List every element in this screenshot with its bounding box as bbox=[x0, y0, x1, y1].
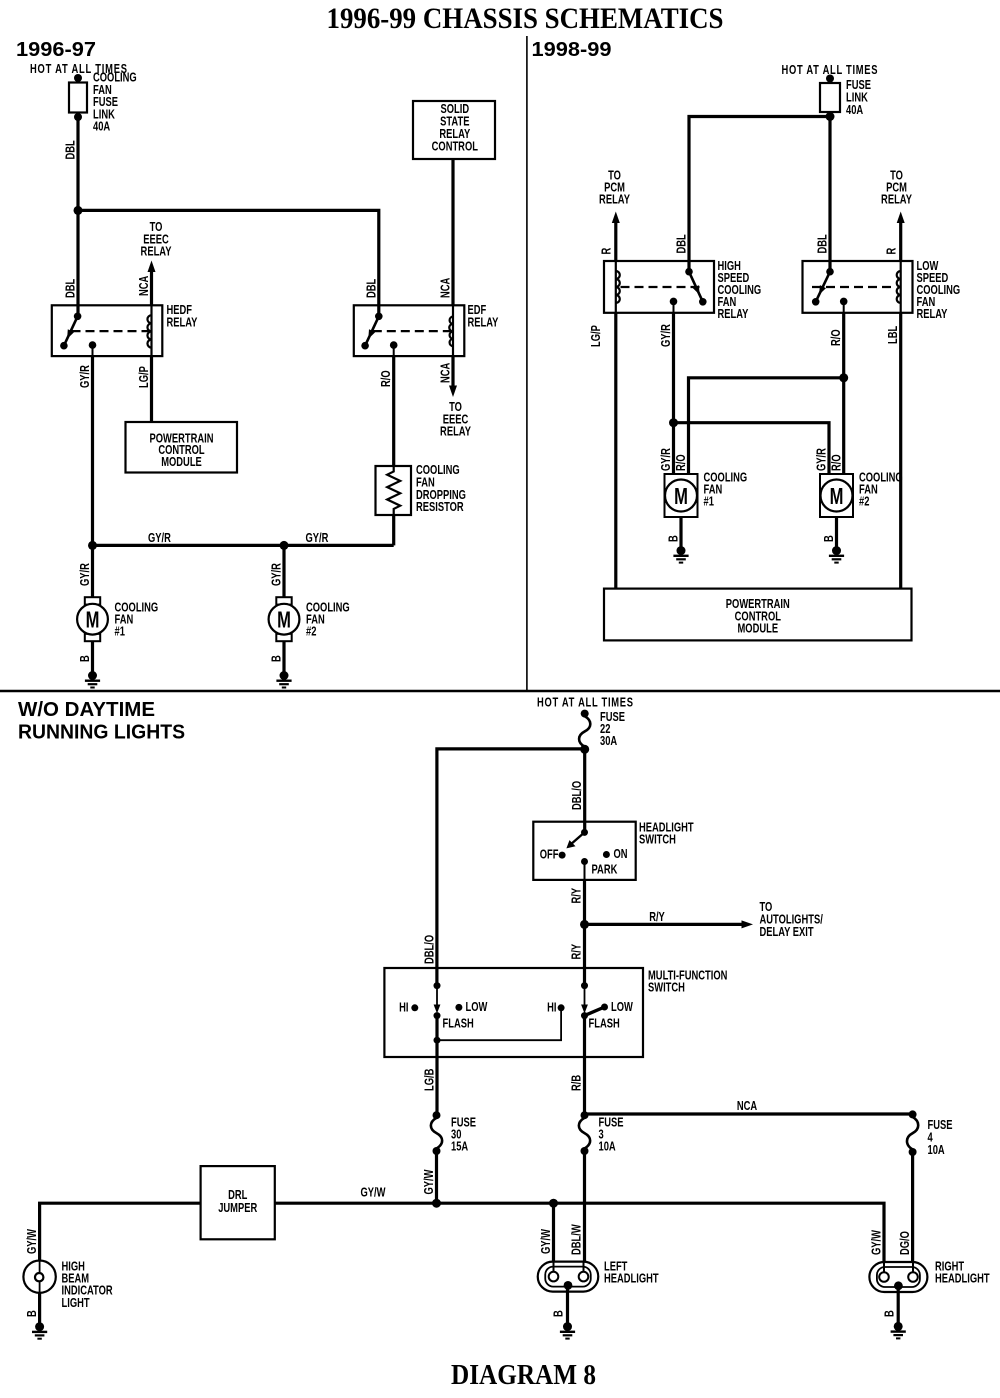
switch multi-function left pole bbox=[434, 982, 441, 1057]
svg-text:RELAY: RELAY bbox=[167, 316, 198, 330]
relay low speed contacts and arm bbox=[812, 268, 848, 306]
fuse link 40A (1998-99) bbox=[820, 75, 840, 121]
relay low speed coil bbox=[897, 261, 901, 313]
value label FUSE 3 10A bbox=[599, 1116, 624, 1154]
label LBL below low speed relay bbox=[887, 326, 901, 344]
relay low speed dashed link bbox=[812, 286, 896, 288]
label DG/O bbox=[899, 1231, 913, 1255]
svg-text:R: R bbox=[885, 247, 899, 254]
wire GY/R from HEDF bbox=[92, 345, 94, 545]
wire R to PCM relay with arrow (right) bbox=[897, 212, 905, 262]
fuse 30 15A bbox=[431, 1111, 442, 1155]
wire LBL to PCM (1998-99) bbox=[899, 313, 902, 589]
svg-text:GY/R: GY/R bbox=[815, 448, 829, 471]
wire R/Y headlight switch to junction bbox=[584, 862, 586, 925]
fuse 4 10A bbox=[907, 1110, 918, 1156]
svg-text:R/O: R/O bbox=[380, 370, 394, 387]
wire R/O crossover to fan1 bbox=[689, 378, 844, 474]
label TO AUTOLIGHTS/DELAY EXIT bbox=[760, 901, 824, 940]
wire B fan1 to ground (98-99) bbox=[679, 517, 682, 551]
caption DIAGRAM 8 bbox=[451, 1359, 596, 1391]
wire NCA to EEEC relay with arrow bbox=[148, 261, 156, 306]
svg-text:DBL: DBL bbox=[365, 279, 379, 298]
label DBL above high speed relay bbox=[675, 234, 689, 253]
label R/O above fan2 (98-99) bbox=[830, 454, 844, 471]
module DRL JUMPER bbox=[201, 1166, 275, 1239]
label GY/R above fan1 bbox=[79, 563, 93, 586]
label PARK bbox=[592, 863, 618, 877]
section divider vertical bbox=[526, 36, 528, 691]
wire GY/R high speed relay to fan1 bbox=[673, 301, 675, 474]
node LOW left bbox=[455, 1004, 462, 1011]
svg-text:B: B bbox=[667, 535, 681, 542]
label GY/R below high speed relay bbox=[660, 324, 674, 347]
svg-text:DBL/O: DBL/O bbox=[571, 781, 585, 810]
label DBL/W bbox=[570, 1224, 584, 1255]
svg-text:HEADLIGHT: HEADLIGHT bbox=[604, 1272, 659, 1286]
svg-text:30A: 30A bbox=[600, 735, 617, 749]
svg-text:15A: 15A bbox=[451, 1140, 468, 1154]
svg-text:M: M bbox=[277, 608, 291, 633]
svg-text:#2: #2 bbox=[859, 495, 869, 509]
label RIGHT HEADLIGHT bbox=[935, 1260, 990, 1286]
label B fan1 (98-99) bbox=[667, 535, 681, 542]
wire DG/O fuse 4 to right headlight bbox=[911, 1152, 914, 1268]
svg-text:W/O DAYTIME: W/O DAYTIME bbox=[18, 699, 155, 721]
wire B left headlight to ground bbox=[566, 1285, 569, 1326]
svg-text:LG/B: LG/B bbox=[423, 1069, 437, 1091]
label TO PCM RELAY (right) bbox=[881, 169, 912, 207]
motor cooling fan #1 (1996-97) bbox=[77, 597, 108, 641]
junction node GY/R fan2 bbox=[280, 541, 289, 550]
svg-text:NCA: NCA bbox=[439, 363, 453, 383]
node HI right bbox=[558, 1004, 565, 1011]
resistor cooling fan dropping resistor bbox=[376, 466, 412, 515]
label OFF bbox=[540, 848, 559, 862]
switch headlight box bbox=[533, 822, 635, 880]
label GY/R above fan2 (98-99) bbox=[815, 448, 829, 471]
wire GY/W to left headlight bbox=[552, 1203, 555, 1268]
svg-text:RELAY: RELAY bbox=[881, 193, 912, 207]
label HOT AT ALL TIMES (bottom) bbox=[537, 696, 633, 710]
switch arm to LOW right bbox=[585, 1004, 609, 1016]
label FLASH right bbox=[589, 1017, 620, 1031]
label COOLING FAN #1 bbox=[115, 601, 159, 639]
svg-text:R/O: R/O bbox=[830, 329, 844, 346]
bulb left headlight bbox=[538, 1262, 599, 1292]
wire DBL fuse to high speed relay bbox=[689, 117, 830, 272]
label HIGH SPEED COOLING FAN RELAY bbox=[718, 260, 762, 322]
svg-text:RELAY: RELAY bbox=[917, 308, 948, 322]
svg-text:R/B: R/B bbox=[570, 1075, 584, 1091]
svg-text:RELAY: RELAY bbox=[141, 245, 172, 259]
switch headlight contacts bbox=[559, 829, 610, 865]
module SOLID STATE RELAY CONTROL bbox=[413, 101, 495, 159]
svg-text:M: M bbox=[674, 484, 688, 509]
label R/O below low speed relay bbox=[830, 329, 844, 346]
wire DBL/O to headlight switch bbox=[583, 749, 586, 832]
wire flash link bbox=[434, 1011, 562, 1044]
junction node GY/W left headlight bbox=[549, 1199, 558, 1208]
svg-text:LIGHT: LIGHT bbox=[62, 1296, 90, 1310]
wire GY/R to cooling fan 1 bbox=[91, 545, 94, 596]
svg-text:#1: #1 bbox=[704, 495, 715, 509]
svg-text:LBL: LBL bbox=[887, 326, 901, 344]
svg-text:RELAY: RELAY bbox=[599, 193, 630, 207]
bulb right headlight bbox=[869, 1262, 927, 1292]
wire GY/R crossover to fan2 bbox=[674, 423, 830, 474]
motor cooling fan #2 (1996-97) bbox=[269, 597, 300, 641]
label HI right bbox=[547, 1001, 556, 1015]
label R (right) bbox=[885, 247, 899, 254]
label B fan1 bbox=[79, 655, 93, 662]
svg-text:PARK: PARK bbox=[592, 863, 618, 877]
wire DBL/W fuse 3 to left headlight bbox=[583, 1151, 586, 1268]
svg-text:10A: 10A bbox=[928, 1144, 945, 1158]
svg-text:GY/R: GY/R bbox=[148, 531, 171, 545]
svg-text:GY/W: GY/W bbox=[540, 1229, 554, 1254]
svg-text:DELAY EXIT: DELAY EXIT bbox=[760, 926, 814, 940]
wire GY/R to cooling fan 2 bbox=[282, 545, 285, 596]
wire GY/R bus bbox=[93, 544, 394, 547]
svg-text:R: R bbox=[600, 247, 614, 254]
module POWERTRAIN CONTROL MODULE (1996-97) bbox=[126, 422, 238, 473]
svg-text:DBL/W: DBL/W bbox=[570, 1224, 584, 1255]
svg-text:LOW: LOW bbox=[466, 1001, 488, 1015]
svg-text:GY/W: GY/W bbox=[361, 1186, 386, 1200]
wire B right headlight to ground bbox=[897, 1286, 900, 1327]
svg-text:GY/R: GY/R bbox=[660, 324, 674, 347]
svg-text:10A: 10A bbox=[599, 1140, 616, 1154]
relay EDF contacts and arm bbox=[361, 313, 397, 350]
label LG/B bbox=[423, 1069, 437, 1091]
label TO EEEC RELAY (below EDF) bbox=[440, 401, 471, 439]
label COOLING FAN #1 (98-99) bbox=[704, 471, 748, 509]
relay EDF coil bbox=[449, 305, 453, 356]
label MULTI-FUNCTION SWITCH bbox=[648, 969, 727, 995]
svg-text:1998-99: 1998-99 bbox=[532, 39, 612, 61]
wire B fan2 to ground bbox=[282, 642, 285, 676]
label HIGH BEAM INDICATOR LIGHT bbox=[62, 1260, 114, 1310]
motor cooling fan #2 (1998-99) bbox=[820, 474, 853, 517]
label R/O below EDF bbox=[380, 370, 394, 387]
label R (left) bbox=[600, 247, 614, 254]
label DBL above low speed relay bbox=[816, 234, 830, 253]
label R/Y below junction bbox=[570, 944, 584, 960]
fuse cooling fan fuse link 40A bbox=[69, 74, 87, 121]
label LOW left bbox=[466, 1001, 488, 1015]
label HOT AT ALL TIMES (1998-99) bbox=[782, 64, 878, 78]
wire DBL fuse to low speed relay bbox=[828, 117, 831, 272]
label B fan2 (98-99) bbox=[823, 535, 837, 542]
switch multi-function box bbox=[384, 968, 643, 1057]
label GY/W indicator bbox=[26, 1229, 40, 1254]
svg-text:#1: #1 bbox=[115, 625, 126, 639]
svg-text:GY/R: GY/R bbox=[660, 448, 674, 471]
label LOW right bbox=[611, 1001, 633, 1015]
label GY/R on bus right bbox=[306, 531, 329, 545]
wire DBL/O branch left bbox=[437, 749, 585, 986]
wire B indicator to ground bbox=[38, 1293, 41, 1327]
svg-text:HOT AT ALL TIMES: HOT AT ALL TIMES bbox=[537, 696, 633, 710]
section header 1996-97 bbox=[16, 39, 96, 61]
label COOLING FAN #2 (98-99) bbox=[859, 471, 903, 509]
svg-text:GY/W: GY/W bbox=[870, 1230, 884, 1255]
ground indicator bbox=[32, 1322, 47, 1339]
svg-text:B: B bbox=[79, 655, 93, 662]
wire LG/B to fuse 30 bbox=[435, 1057, 438, 1115]
label GY/W below fuse 30 bbox=[423, 1169, 437, 1194]
junction node R/O bbox=[839, 373, 848, 382]
label B indicator bbox=[26, 1310, 40, 1317]
svg-text:RELAY: RELAY bbox=[718, 308, 749, 322]
fuse 3 10A bbox=[579, 1111, 590, 1155]
wire B fan2 to ground (98-99) bbox=[835, 517, 838, 551]
relay high speed cooling fan box bbox=[604, 261, 714, 313]
svg-text:R/Y: R/Y bbox=[570, 888, 584, 904]
label B right headlight bbox=[883, 1310, 897, 1317]
junction node at fuse link bbox=[826, 112, 835, 121]
section divider horizontal bbox=[0, 690, 1000, 693]
node HI left bbox=[411, 1004, 418, 1011]
switch multi-function right pole bbox=[581, 982, 588, 1057]
svg-text:RESISTOR: RESISTOR bbox=[416, 501, 464, 515]
relay high speed coil bbox=[616, 261, 620, 313]
label GY/R below HEDF bbox=[79, 365, 93, 388]
svg-text:LG/P: LG/P bbox=[590, 325, 604, 347]
svg-text:NCA: NCA bbox=[737, 1100, 757, 1114]
svg-text:40A: 40A bbox=[846, 103, 863, 117]
svg-text:B: B bbox=[823, 535, 837, 542]
svg-text:MODULE: MODULE bbox=[161, 456, 202, 470]
value label FUSE 30 15A bbox=[451, 1116, 476, 1154]
wire GY/W fuse 30 to bus bbox=[435, 1151, 438, 1203]
svg-text:RELAY: RELAY bbox=[468, 316, 499, 330]
svg-text:NCA: NCA bbox=[138, 276, 152, 296]
svg-text:#2: #2 bbox=[306, 625, 316, 639]
wire LG/P to PCM (1998-99) bbox=[614, 313, 617, 589]
label GY/R above fan1 (98-99) bbox=[660, 448, 674, 471]
svg-text:R/Y: R/Y bbox=[649, 911, 665, 925]
wire R/O from EDF to dropping resistor bbox=[393, 345, 395, 466]
module POWERTRAIN CONTROL MODULE (1998-99) bbox=[604, 589, 912, 641]
junction node GY/W fuse30 bbox=[432, 1199, 441, 1208]
svg-text:HEADLIGHT: HEADLIGHT bbox=[935, 1272, 990, 1286]
label FLASH left bbox=[443, 1017, 474, 1031]
wire R/O resistor to GY/R bus bbox=[392, 515, 395, 545]
label B fan2 bbox=[270, 655, 284, 662]
svg-text:40A: 40A bbox=[93, 120, 110, 134]
svg-text:M: M bbox=[830, 484, 844, 509]
label GY/W left headlight bbox=[540, 1229, 554, 1254]
label TO PCM RELAY (left) bbox=[599, 169, 630, 207]
svg-text:LOW: LOW bbox=[611, 1001, 633, 1015]
svg-text:CONTROL: CONTROL bbox=[432, 140, 478, 154]
title 1996-99 CHASSIS SCHEMATICS bbox=[327, 2, 724, 35]
wire R/Y to autolights with arrow bbox=[585, 920, 754, 928]
svg-text:GY/W: GY/W bbox=[26, 1229, 40, 1254]
svg-text:SWITCH: SWITCH bbox=[639, 833, 676, 847]
label NCA above HEDF bbox=[138, 276, 152, 296]
ground fan2 (98-99) bbox=[829, 546, 844, 563]
svg-text:DBL: DBL bbox=[816, 234, 830, 253]
svg-text:DBL: DBL bbox=[675, 234, 689, 253]
ground right headlight bbox=[891, 1322, 906, 1339]
label DBL bbox=[64, 140, 78, 159]
value label FUSE 4 10A bbox=[928, 1119, 953, 1158]
svg-text:OFF: OFF bbox=[540, 848, 559, 862]
label LOW SPEED COOLING FAN RELAY bbox=[917, 260, 961, 322]
wire DBL from fuse to HEDF relay bbox=[76, 117, 79, 316]
relay EDF box bbox=[354, 305, 465, 356]
svg-text:ON: ON bbox=[614, 848, 628, 862]
label HI left bbox=[399, 1001, 408, 1015]
wire NCA to fuse 4 bbox=[585, 1112, 913, 1115]
label TO EEEC RELAY (left) bbox=[141, 221, 172, 259]
label R/B bbox=[570, 1075, 584, 1091]
svg-text:RUNNING LIGHTS: RUNNING LIGHTS bbox=[18, 722, 185, 744]
junction node DBL bbox=[74, 206, 83, 215]
label GY/W on bus bbox=[361, 1186, 386, 1200]
svg-text:1996-97: 1996-97 bbox=[16, 39, 96, 61]
label LG/P bbox=[138, 366, 152, 388]
junction node R/Y bbox=[580, 920, 589, 929]
svg-text:DRL: DRL bbox=[228, 1189, 247, 1203]
svg-text:JUMPER: JUMPER bbox=[218, 1202, 258, 1216]
svg-text:B: B bbox=[26, 1310, 40, 1317]
relay high speed contacts and arm bbox=[670, 268, 707, 306]
label HEADLIGHT SWITCH bbox=[639, 821, 694, 847]
wire R to PCM relay with arrow (left) bbox=[612, 212, 620, 262]
label COOLING FAN #2 bbox=[306, 601, 350, 639]
svg-text:B: B bbox=[552, 1310, 566, 1317]
label GY/W right headlight bbox=[870, 1230, 884, 1255]
ground fan2 bbox=[276, 671, 291, 688]
svg-text:FLASH: FLASH bbox=[443, 1017, 474, 1031]
label HOT AT ALL TIMES (1996-97) bbox=[30, 63, 127, 77]
svg-text:HI: HI bbox=[547, 1001, 556, 1015]
section header W/O DAYTIME RUNNING LIGHTS bbox=[18, 699, 185, 744]
fuse 22 30A bbox=[579, 710, 590, 754]
label B left headlight bbox=[552, 1310, 566, 1317]
wire R/B to fuse 3 bbox=[583, 1057, 586, 1115]
label R/Y above junction bbox=[570, 888, 584, 904]
svg-text:RELAY: RELAY bbox=[440, 425, 471, 439]
svg-text:LG/P: LG/P bbox=[138, 366, 152, 388]
value label COOLING FAN FUSE LINK 40A bbox=[93, 71, 137, 134]
label R/O above fan1 (98-99) bbox=[675, 454, 689, 471]
label DBL/O bbox=[571, 781, 585, 810]
ground left headlight bbox=[560, 1322, 575, 1339]
svg-text:GY/R: GY/R bbox=[306, 531, 329, 545]
relay HEDF contacts and arm bbox=[60, 313, 96, 350]
label LG/P below high speed relay bbox=[590, 325, 604, 347]
value label FUSE LINK 40A bbox=[846, 79, 871, 118]
relay HEDF coil bbox=[147, 305, 151, 356]
svg-text:DBL: DBL bbox=[64, 140, 78, 159]
junction node GY/R fan1 bbox=[88, 541, 97, 550]
wire R/O low speed relay to fan2 bbox=[843, 301, 845, 474]
relay high speed dashed link bbox=[621, 286, 701, 288]
svg-text:MODULE: MODULE bbox=[738, 622, 779, 636]
wire B fan1 to ground bbox=[91, 642, 94, 676]
svg-text:FLASH: FLASH bbox=[589, 1017, 620, 1031]
label LEFT HEADLIGHT bbox=[604, 1260, 659, 1286]
ground fan1 bbox=[85, 671, 100, 688]
section header 1998-99 bbox=[532, 39, 612, 61]
svg-text:DBL: DBL bbox=[64, 279, 78, 298]
svg-text:SWITCH: SWITCH bbox=[648, 981, 685, 995]
svg-text:GY/R: GY/R bbox=[270, 563, 284, 586]
svg-text:DIAGRAM 8: DIAGRAM 8 bbox=[451, 1359, 596, 1391]
label NCA below EDF bbox=[439, 363, 453, 383]
label ON bbox=[614, 848, 628, 862]
relay HEDF box bbox=[52, 305, 163, 356]
svg-text:B: B bbox=[883, 1310, 897, 1317]
svg-text:GY/W: GY/W bbox=[423, 1169, 437, 1194]
label HEDF RELAY bbox=[167, 304, 198, 330]
wire NCA from solid state relay control bbox=[451, 159, 454, 305]
value label FUSE 22 30A bbox=[600, 711, 625, 749]
label GY/R on bus left bbox=[148, 531, 171, 545]
label DBL above HEDF bbox=[64, 279, 78, 298]
svg-text:NCA: NCA bbox=[439, 278, 453, 298]
label NCA above EDF bbox=[439, 278, 453, 298]
label COOLING FAN DROPPING RESISTOR bbox=[416, 464, 466, 515]
svg-text:R/O: R/O bbox=[675, 454, 689, 471]
junction node below fuse 22 bbox=[580, 745, 589, 754]
svg-text:M: M bbox=[86, 608, 100, 633]
wire GY/W main bus bbox=[40, 1203, 884, 1268]
svg-text:HI: HI bbox=[399, 1001, 408, 1015]
svg-text:R/O: R/O bbox=[830, 454, 844, 471]
label EDF RELAY bbox=[468, 304, 499, 330]
wire DBL branch to EDF relay bbox=[78, 210, 379, 316]
label DBL/O on left branch bbox=[423, 935, 437, 964]
ground fan1 (98-99) bbox=[673, 546, 688, 563]
wire NCA below EDF with arrow to EEEC relay bbox=[449, 356, 457, 397]
svg-text:B: B bbox=[270, 655, 284, 662]
label NCA bbox=[737, 1100, 757, 1114]
svg-text:DG/O: DG/O bbox=[899, 1231, 913, 1255]
svg-text:GY/R: GY/R bbox=[79, 365, 93, 388]
junction node GY/R bbox=[669, 418, 678, 427]
label DBL above EDF bbox=[365, 279, 379, 298]
lamp high beam indicator light bbox=[23, 1261, 55, 1293]
label R/Y on branch bbox=[649, 911, 665, 925]
svg-text:1996-99 CHASSIS SCHEMATICS: 1996-99 CHASSIS SCHEMATICS bbox=[327, 2, 724, 35]
relay EDF dashed link bbox=[373, 330, 451, 332]
svg-text:R/Y: R/Y bbox=[570, 944, 584, 960]
motor cooling fan #1 (1998-99) bbox=[665, 474, 698, 517]
relay HEDF dashed link bbox=[72, 330, 150, 332]
svg-text:GY/R: GY/R bbox=[79, 563, 93, 586]
wire R/Y junction to multi-function switch bbox=[583, 924, 586, 985]
svg-text:DBL/O: DBL/O bbox=[423, 935, 437, 964]
relay low speed cooling fan box bbox=[803, 261, 913, 313]
label GY/R above fan2 bbox=[270, 563, 284, 586]
wire LG/P from HEDF coil to PCM bbox=[150, 356, 153, 422]
